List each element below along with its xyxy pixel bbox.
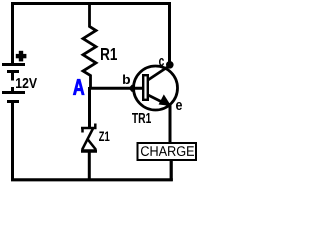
cathode bar right up-hook <box>94 124 97 130</box>
anode base bar <box>81 149 97 153</box>
value label 12V <box>16 78 37 88</box>
wire right vertical from top rail to collector dot <box>168 2 171 66</box>
wire emitter down to CHARGE box <box>169 104 172 143</box>
label Z1 <box>99 132 110 142</box>
battery B1 cell2 short plate <box>7 100 19 103</box>
battery B1 plus sign <box>16 51 27 62</box>
resistor R1 <box>83 4 96 89</box>
battery B1 cell1 short plate <box>7 70 19 73</box>
wire node A down to zener <box>88 87 91 128</box>
wire bottom rail <box>11 178 173 181</box>
base junction blob <box>129 85 136 93</box>
triangle left diagonal <box>82 129 93 150</box>
label b <box>123 75 130 85</box>
cathode bar <box>81 127 97 130</box>
wire left vertical from top rail to battery <box>11 2 14 64</box>
battery B1 cell1 stub <box>11 73 14 81</box>
collector diagonal <box>148 66 170 81</box>
transistor TR1 circle <box>134 66 178 110</box>
wire left vertical from battery to bottom rail <box>11 103 14 181</box>
wire top rail <box>11 2 171 5</box>
triangle right diagonal <box>88 139 96 149</box>
emitter arrowhead <box>159 94 172 106</box>
label R1 <box>101 48 117 60</box>
battery B1 cell1 long plate <box>2 63 25 66</box>
label TR1 <box>132 113 151 123</box>
emitter diagonal <box>148 95 170 106</box>
zener diode Z1 <box>81 124 97 152</box>
wire zener to bottom rail <box>88 152 91 180</box>
label CHARGE <box>141 146 194 156</box>
cathode bar left down-hook <box>81 127 84 133</box>
transistor base bar <box>143 75 148 100</box>
wire CHARGE box to bottom rail <box>170 160 173 181</box>
collector junction dot <box>166 61 174 69</box>
battery B1 cell2 long plate <box>2 91 25 94</box>
label c <box>159 58 164 66</box>
label e <box>176 102 182 110</box>
wire node A to transistor base <box>89 87 143 90</box>
battery B1 cell2 stub <box>11 87 14 92</box>
node A label <box>73 79 84 95</box>
CHARGE load box <box>138 143 197 160</box>
